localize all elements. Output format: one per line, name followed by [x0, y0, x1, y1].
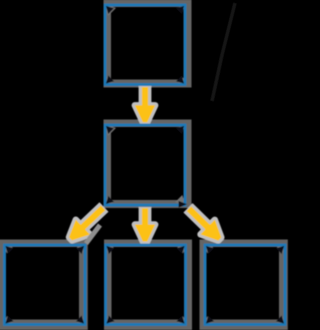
corner halo wedges of bottom-right box — [204, 244, 213, 253]
node border: bottom-left box — [5, 245, 86, 325]
faint edge halo stub into bottom-left box top-right corner — [86, 225, 100, 244]
corner arrowheads of middle box — [106, 126, 114, 134]
arrow: middle box -> bottom-middle box — [135, 207, 155, 242]
corner arrowheads of bottom-middle box — [106, 246, 114, 254]
node border: bottom-right box — [205, 245, 285, 325]
corner arrowheads of top box — [106, 6, 114, 14]
node border: top box — [105, 5, 185, 85]
corner halo wedges of bottom-left box — [4, 244, 13, 253]
node halo: top box — [104, 0, 192, 88]
corner halo wedges of top box — [104, 4, 116, 16]
node halo: middle box — [104, 120, 192, 209]
node border: middle box — [105, 125, 187, 208]
arrow: middle box -> bottom-left box — [69, 207, 104, 240]
node border: bottom-middle box — [106, 245, 186, 325]
corner arrowheads of bottom-right box — [206, 246, 214, 254]
corner halo wedges of bottom-middle box — [105, 244, 114, 253]
node halo: bottom-right box — [200, 240, 288, 330]
node halo: bottom-left box — [0, 240, 88, 330]
arrow: middle box -> bottom-right box — [188, 208, 221, 241]
corner arrowheads of bottom-left box — [5, 246, 13, 254]
node halo: bottom-middle box — [104, 240, 192, 330]
faint edge trace top-right — [212, 3, 235, 101]
arrow: top box -> middle box — [135, 86, 155, 123]
corner halo wedges of middle box — [104, 124, 116, 136]
